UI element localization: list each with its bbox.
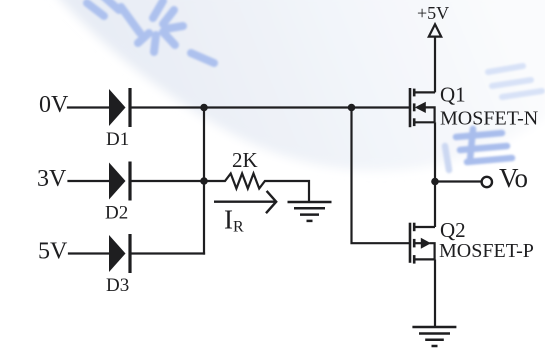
- svg-text:5V: 5V: [38, 239, 68, 265]
- wire D3 cathode to bus: [131, 252, 204, 254]
- svg-text:Q2: Q2: [440, 218, 466, 242]
- node junction dot B (0V row / Q2 gate): [348, 104, 356, 112]
- wire 3V input row: [69, 180, 110, 182]
- svg-text:+5V: +5V: [417, 3, 449, 23]
- watermark glyphs right: [488, 66, 542, 97]
- svg-text:Vo: Vo: [499, 163, 528, 193]
- wire Q2 source to ground: [434, 259, 436, 326]
- diode D2: [109, 162, 132, 201]
- resistor R 2K: [204, 174, 309, 202]
- diode D3: [109, 234, 132, 273]
- wire 0V input row: [68, 106, 109, 108]
- transistor Q1 MOSFET-N: [410, 88, 414, 127]
- svg-text:MOSFET-P: MOSFET-P: [439, 240, 534, 262]
- current arrow IR: [214, 191, 276, 213]
- node junction dot A (0V row / bus): [200, 104, 208, 112]
- terminal Vo open circle: [482, 177, 492, 187]
- svg-text:D2: D2: [105, 203, 128, 224]
- ground G1 (resistor): [288, 202, 332, 221]
- svg-text:3V: 3V: [37, 166, 67, 192]
- wire 5V input row: [69, 252, 109, 254]
- node junction dot C (3V row / resistor): [200, 177, 208, 185]
- svg-text:MOSFET-N: MOSFET-N: [440, 108, 538, 130]
- wire Q2 gate vertical from top node: [352, 108, 409, 244]
- watermark band: [52, 0, 545, 170]
- diode D1: [109, 88, 132, 127]
- watermark glyphs top-left: [87, 0, 214, 63]
- wire Q1 source to Vo node: [434, 122, 436, 227]
- svg-text:D1: D1: [106, 129, 129, 150]
- wire Vo node to terminal: [435, 180, 481, 182]
- svg-text:0V: 0V: [39, 92, 69, 118]
- wire D2 cathode to node: [131, 180, 204, 182]
- wire vertical bus x=204: [203, 108, 205, 254]
- node Vo junction dot: [431, 178, 439, 186]
- power +5V arrow symbol: [429, 24, 441, 36]
- svg-text:Q1: Q1: [440, 83, 466, 107]
- transistor Q2 MOSFET-P: [410, 223, 414, 264]
- wire D1 cathode to Q1 gate: [131, 106, 409, 108]
- ground G2 (output stage): [412, 327, 456, 346]
- wire +5V to Q1 drain: [434, 37, 436, 92]
- svg-text:D3: D3: [106, 275, 129, 296]
- svg-text:2K: 2K: [232, 148, 258, 172]
